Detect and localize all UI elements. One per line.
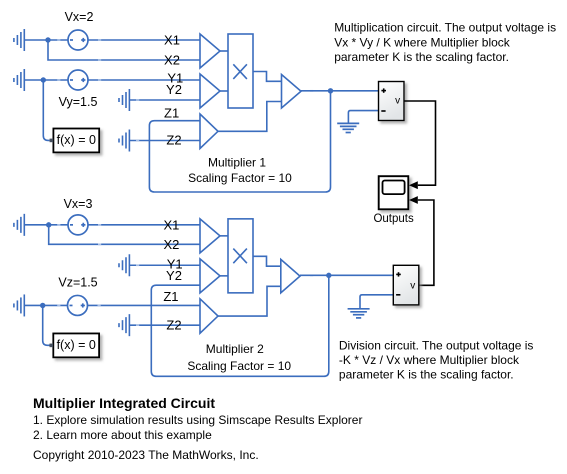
sensor 1 minus mark [381,110,385,112]
wire [24,39,68,41]
voltage source Vx=2 [68,30,88,50]
buffer triangle X (PS subtract) [200,34,220,68]
scope input arrow 1 [409,181,418,189]
wire multiplier 2 to output buffer (step) [253,256,281,266]
node junction Vx3 [46,222,51,227]
svg-text:X2: X2 [163,237,179,252]
svg-text:Vx=3: Vx=3 [64,197,93,211]
svg-text:Z1: Z1 [164,105,179,120]
svg-text:Z1: Z1 [163,289,178,304]
svg-text:Division circuit. The output v: Division circuit. The output voltage is … [339,339,537,382]
wire Z buffer to output buffer 2 [218,286,281,316]
black wire sensor2 to scope [418,200,434,285]
wire Z2 [129,324,200,326]
wire X1 [88,39,200,41]
scope input arrow 2 [409,196,418,204]
sensor 2 plus mark [396,273,401,275]
wire X2 branch [49,225,200,245]
svg-text:Multiplier Integrated Circuit: Multiplier Integrated Circuit [33,395,215,411]
buffer triangle Z lower [200,299,218,333]
ground (Z2) [119,130,129,152]
wire output to sensor 2 [300,274,393,276]
wire Z1 [88,304,201,306]
wire Z buffer to output buffer [218,102,282,132]
wire Y2 [129,99,200,101]
ground (sensor 2) [348,309,370,318]
svg-text:Vx=2: Vx=2 [65,10,94,24]
wire buffer X to multiplier [220,50,228,52]
node output junction [328,88,333,93]
voltage sensor 1 [379,82,405,121]
svg-text:Multiplier 2: Multiplier 2 [206,342,264,356]
svg-text:Y2: Y2 [166,82,182,97]
svg-text:v: v [395,96,400,107]
wire joint ticks lower [57,225,313,325]
svg-text:Outputs: Outputs [373,213,414,225]
svg-text:Vy=1.5: Vy=1.5 [59,95,98,109]
svg-text:X1: X1 [164,33,180,48]
wire [24,304,67,306]
wire to solver block 2 [43,305,50,345]
multiply X symbol [233,64,247,79]
solver config block f(x)=0 [53,129,99,153]
svg-text:f(x) = 0: f(x) = 0 [57,338,96,352]
wire output to sensor [301,90,379,92]
ground (Y2) [119,89,129,111]
svg-text:Z2: Z2 [166,133,181,148]
buffer triangle Y lower [200,259,220,293]
svg-text:Multiplication circuit. The ou: Multiplication circuit. The output volta… [334,21,559,64]
wire Y1 [129,264,200,266]
svg-text:X2: X2 [164,53,180,68]
wire Y1 [88,79,200,81]
voltage sensor 2 [393,265,419,305]
svg-text:Scaling Factor = 10: Scaling Factor = 10 [187,359,291,373]
wire feedback to Y2 [151,275,328,376]
svg-text:Z2: Z2 [166,318,181,333]
svg-text:Y2: Y2 [166,268,182,283]
wire [24,79,68,81]
voltage source Vy=1.5 [68,70,88,90]
sensor 2 minus mark [396,294,400,296]
solver config block 2 f(x)=0 [53,333,99,357]
svg-text:Multiplier 1: Multiplier 1 [208,156,266,170]
multiplier block body (Multiplier 2) [228,219,253,293]
buffer triangle X lower [200,219,220,253]
node junction Vz [40,303,45,308]
ground (electrical reference, Vz branch) [14,294,24,316]
wire joint ticks top [57,40,313,141]
ground (electrical reference, Vy branch) [14,69,24,91]
scope block Outputs [379,176,409,209]
scope screen [383,181,405,195]
ground (sensor 1) [337,123,359,132]
wire multiplier to output buffer (step) [253,72,282,82]
solver connector square [50,139,54,143]
buffer triangle Y [200,74,220,108]
node junction Vy [41,77,46,82]
wire buffer Y to multiplier [220,90,228,92]
svg-text:2. Learn more about this examp: 2. Learn more about this example [33,428,212,442]
multiplier block body (Multiplier 1) [228,34,253,108]
ground (electrical reference, Vx branch) [14,29,24,51]
wire Z2 [129,140,200,142]
svg-text:1. Explore simulation results: 1. Explore simulation results using Sims… [33,413,362,427]
multiply X symbol 2 [233,249,247,264]
svg-text:Vz=1.5: Vz=1.5 [58,276,97,290]
wire feedback to Z1 [149,91,330,192]
svg-text:X1: X1 [163,217,179,232]
ground (Z2 lower) [119,314,129,336]
ground (Y1 lower) [119,254,129,276]
wire X2 branch [48,40,200,60]
svg-text:Scaling Factor = 10: Scaling Factor = 10 [188,171,292,185]
svg-text:v: v [410,280,415,291]
svg-text:f(x) = 0: f(x) = 0 [57,133,96,147]
solver connector square 2 [50,344,54,348]
voltage source Vx=3 [68,215,88,235]
wire X1 [88,224,200,226]
wire [24,224,68,226]
ground (electrical reference, Vx3 branch) [14,214,24,236]
wire to solver block [43,80,49,140]
buffer triangle Z [200,114,218,149]
svg-text:Copyright 2010-2023 The MathWo: Copyright 2010-2023 The MathWorks, Inc. [33,448,259,462]
wire buffer X to multiplier 2 [220,235,228,237]
wire sensor2 minus to ground [360,295,393,309]
wire buffer Y to multiplier 2 [220,275,228,277]
sensor 1 plus mark [381,90,386,92]
black wire sensor1 to scope [404,101,436,185]
node output junction 2 [326,273,331,278]
output buffer triangle [282,75,302,109]
voltage source Vz=1.5 [68,295,88,315]
node junction Vx [45,37,50,42]
wire sensor minus to ground [348,111,378,123]
output buffer triangle 2 [281,259,300,293]
